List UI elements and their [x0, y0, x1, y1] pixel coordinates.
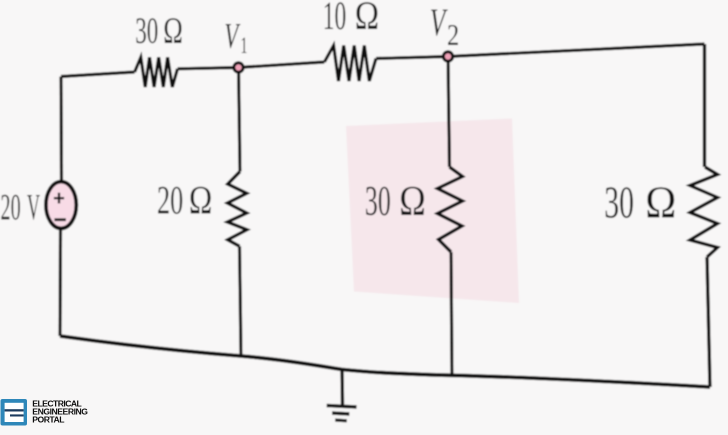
wire: R4 down to bottom bus [451, 252, 452, 375]
wire: node V1 down to R3 [239, 68, 241, 172]
svg-text:10: 10 [323, 0, 346, 39]
wire: top bus from R1 through node V1 to R2 [178, 62, 325, 69]
svg-text:Ω: Ω [355, 0, 379, 38]
svg-text:20: 20 [1, 188, 21, 228]
svg-text:PORTAL: PORTAL [32, 415, 64, 425]
voltage source minus sign [54, 218, 66, 221]
resistor R4 30 ohm middle vertical zigzag [438, 167, 463, 252]
svg-text:2: 2 [447, 18, 459, 52]
svg-text:30: 30 [604, 177, 634, 228]
wire: bottom bus from bottom-left corner to right [60, 336, 710, 387]
svg-text:V: V [27, 188, 40, 229]
resistor R5 30 ohm right vertical zigzag [690, 167, 718, 257]
voltage source plus sign [54, 193, 64, 204]
resistor R3 20 ohm vertical zigzag [228, 172, 247, 247]
wire: R3 down to bottom bus [240, 246, 242, 356]
wire: top bus from corner to R1 [61, 72, 135, 77]
svg-text:Ω: Ω [163, 10, 183, 52]
wire: left branch from source bottom down to bottom-left corner [58, 230, 62, 336]
ground symbol bars [327, 406, 357, 408]
svg-text:Ω: Ω [399, 178, 426, 224]
logo EEP icon blue square [1, 399, 28, 426]
voltage source VS 20V ellipse [46, 182, 76, 229]
node V2 dot [442, 50, 454, 62]
svg-text:30: 30 [135, 9, 158, 51]
svg-text:1: 1 [241, 34, 248, 59]
resistor R2 10 ohm horizontal zigzag [324, 46, 376, 82]
wire: left branch from source top up to top-left corner [59, 77, 63, 183]
svg-text:30: 30 [365, 178, 391, 225]
resistor R1 30 ohm horizontal zigzag [135, 57, 178, 87]
wire: node V2 down to R4 [448, 57, 450, 168]
wire: right branch down to R5 [703, 44, 706, 167]
node V1 dot [232, 61, 244, 73]
ground stub wire [340, 370, 344, 405]
wire: top bus from R2 through node V2 to top-right corner [376, 44, 705, 59]
svg-text:Ω: Ω [189, 178, 212, 223]
svg-text:Ω: Ω [645, 177, 676, 228]
svg-text:20: 20 [157, 179, 183, 223]
pink highlight region around middle resistor [346, 119, 519, 304]
wire: right branch from R5 down to bottom bus [707, 257, 710, 387]
